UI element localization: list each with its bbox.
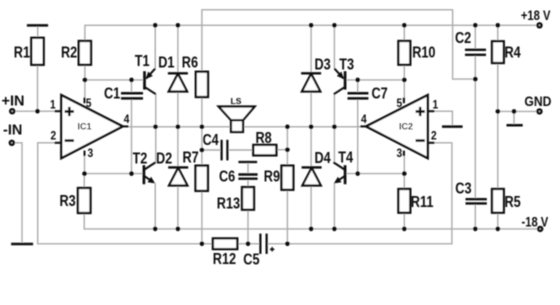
- svg-text:T2: T2: [133, 150, 148, 167]
- svg-text:3: 3: [397, 147, 403, 160]
- svg-text:D1: D1: [158, 55, 174, 72]
- svg-text:IC1: IC1: [78, 122, 92, 132]
- svg-text:-18 V: -18 V: [522, 214, 549, 229]
- svg-text:C1: C1: [104, 85, 120, 102]
- svg-text:5: 5: [86, 97, 92, 110]
- svg-text:R13: R13: [217, 195, 240, 212]
- svg-text:4: 4: [124, 113, 130, 126]
- svg-text:D2: D2: [156, 150, 172, 167]
- svg-text:R4: R4: [505, 44, 521, 61]
- svg-text:R12: R12: [213, 251, 236, 268]
- svg-text:R6: R6: [182, 55, 198, 72]
- svg-text:R5: R5: [505, 194, 521, 211]
- svg-text:C4: C4: [203, 132, 219, 149]
- svg-text:LS: LS: [231, 96, 242, 106]
- svg-text:R11: R11: [411, 194, 434, 211]
- svg-text:C2: C2: [455, 30, 471, 47]
- svg-text:R7: R7: [183, 149, 199, 166]
- svg-text:C3: C3: [455, 180, 471, 197]
- svg-text:+IN: +IN: [2, 94, 25, 110]
- svg-text:R9: R9: [264, 168, 280, 185]
- svg-text:R2: R2: [61, 44, 77, 61]
- svg-text:T4: T4: [338, 149, 353, 166]
- svg-text:R10: R10: [412, 44, 435, 61]
- svg-text:C7: C7: [372, 85, 388, 102]
- svg-text:2: 2: [51, 130, 57, 143]
- svg-text:1: 1: [50, 99, 56, 112]
- svg-text:-IN: -IN: [3, 123, 22, 139]
- svg-text:D3: D3: [315, 56, 331, 73]
- svg-text:R3: R3: [60, 193, 76, 210]
- svg-text:T3: T3: [339, 56, 354, 73]
- svg-text:C6: C6: [219, 168, 235, 185]
- svg-text:5: 5: [397, 97, 403, 110]
- svg-text:R1: R1: [14, 44, 30, 61]
- svg-text:T1: T1: [135, 53, 150, 70]
- svg-text:4: 4: [361, 113, 367, 126]
- svg-text:3: 3: [88, 147, 94, 160]
- svg-text:2: 2: [431, 130, 437, 143]
- svg-text:GND: GND: [524, 93, 551, 109]
- svg-text:D4: D4: [315, 150, 331, 167]
- svg-text:1: 1: [433, 99, 439, 112]
- svg-text:IC2: IC2: [399, 122, 413, 132]
- svg-text:+18 V: +18 V: [521, 8, 551, 23]
- svg-text:R8: R8: [256, 130, 272, 147]
- svg-text:C5: C5: [243, 251, 259, 268]
